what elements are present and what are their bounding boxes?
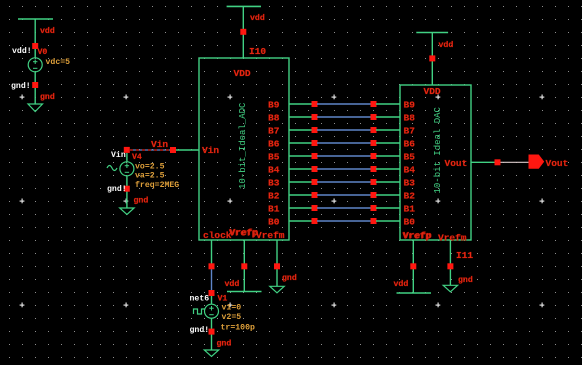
pin square B3 right — [371, 179, 377, 185]
wire B1 net (blue) — [317, 207, 371, 209]
wire clock stub — [211, 240, 213, 264]
wire Vout to port (highlighted) — [501, 161, 530, 163]
pin square Vout wire — [495, 159, 501, 165]
wire Vrefp stub (DAC) — [412, 240, 414, 293]
ground symbol (V1) — [204, 350, 218, 357]
svg-text:gnd!: gnd! — [190, 325, 210, 335]
svg-text:B9: B9 — [404, 100, 416, 111]
svg-text:Vin: Vin — [202, 145, 219, 156]
wire B4 DAC stub — [376, 168, 400, 170]
wire B9 DAC stub — [376, 103, 400, 105]
wire vdd to ADC VDD — [242, 6, 244, 58]
svg-text:net6: net6 — [190, 295, 210, 304]
voltage source V4 — [120, 162, 134, 176]
svg-text:v1=0: v1=0 — [222, 304, 242, 313]
wire B5 DAC stub — [376, 155, 400, 157]
pulse symbol of V1 — [194, 309, 206, 314]
wire B7 net (blue) — [317, 129, 371, 131]
svg-text:B7: B7 — [404, 126, 416, 137]
sine symbol of V4 — [107, 166, 117, 171]
svg-text:B8: B8 — [404, 113, 416, 124]
svg-text:vdd: vdd — [394, 279, 409, 289]
svg-text:vdd: vdd — [250, 13, 265, 23]
wire vdd to DAC VDD — [431, 33, 433, 86]
pin square B6 right — [371, 140, 377, 146]
pin square ADC vdd — [240, 29, 246, 35]
svg-text:B1: B1 — [404, 204, 416, 215]
pin square B2 left — [312, 192, 318, 198]
wire B0 DAC stub — [376, 220, 400, 222]
wire B8 DAC stub — [376, 116, 400, 118]
svg-text:v2=5: v2=5 — [222, 313, 242, 322]
power symbol vdd bar (DAC supply) — [416, 32, 448, 34]
wire Vrefm stub (ADC) — [276, 240, 278, 286]
output port symbol Vout — [529, 155, 544, 168]
pin square V4 minus — [124, 186, 130, 192]
wire Vrefm stub (DAC) — [449, 240, 451, 285]
svg-text:10-bit_Ideal_ADC: 10-bit_Ideal_ADC — [238, 102, 248, 189]
wire V1 minus to gnd — [211, 318, 213, 350]
svg-text:tr=100p: tr=100p — [221, 324, 255, 333]
svg-text:B3: B3 — [404, 178, 416, 189]
ground symbol (ADC Vrefm) — [270, 286, 284, 293]
wire B2 DAC stub — [376, 194, 400, 196]
wire B0 ADC stub — [289, 220, 312, 222]
svg-text:Vrefm: Vrefm — [256, 230, 285, 241]
pin square B6 left — [312, 140, 318, 146]
pin square clock — [209, 263, 215, 269]
wire B3 net (blue) — [317, 181, 371, 183]
wire B7 ADC stub — [289, 129, 312, 131]
wire B5 ADC stub — [289, 155, 312, 157]
svg-text:Vrefm: Vrefm — [438, 233, 467, 244]
svg-text:B6: B6 — [268, 139, 280, 150]
svg-text:VDD: VDD — [234, 68, 251, 79]
pin square V1 minus — [209, 329, 215, 335]
wire B3 ADC stub — [289, 181, 312, 183]
pin square V1 plus — [209, 290, 215, 296]
wire B2 ADC stub — [289, 194, 312, 196]
pin square B1 right — [371, 205, 377, 211]
pin square B5 right — [371, 153, 377, 159]
pin square B8 left — [312, 114, 318, 120]
svg-text:gnd!: gnd! — [107, 184, 127, 194]
svg-text:gnd: gnd — [458, 275, 473, 285]
svg-text:VDD: VDD — [424, 86, 441, 97]
svg-text:vo=2.5: vo=2.5 — [135, 163, 165, 172]
svg-text:B9: B9 — [268, 100, 280, 111]
wire B5 net (blue) — [317, 155, 371, 157]
pin square B0 right — [371, 218, 377, 224]
svg-text:va=2.5: va=2.5 — [135, 172, 165, 181]
power symbol vdd bar (DAC Vrefp) — [397, 292, 432, 294]
power symbol vdd bar (top-left rail) — [18, 18, 53, 20]
wire V4 top — [126, 153, 128, 162]
pin square Vrefm (DAC) — [447, 263, 453, 269]
ground symbol (V4) — [120, 208, 134, 215]
wire B1 DAC stub — [376, 207, 400, 209]
pin square B4 right — [371, 166, 377, 172]
pin square Vrefp (DAC) — [410, 263, 416, 269]
wire vdd to V0 plus — [34, 19, 36, 58]
svg-text:B4: B4 — [268, 165, 280, 176]
junction square on Vin wire — [170, 147, 176, 153]
svg-text:gnd: gnd — [217, 339, 232, 349]
pin square B9 right — [371, 101, 377, 107]
pin square Vrefp (ADC) — [241, 263, 247, 269]
svg-text:vdd: vdd — [225, 279, 240, 289]
pin square B0 left — [312, 218, 318, 224]
voltage source V1 — [205, 304, 219, 318]
svg-text:B2: B2 — [404, 191, 416, 202]
svg-text:B7: B7 — [268, 126, 280, 137]
pin square B7 left — [312, 127, 318, 133]
wire B6 ADC stub — [289, 142, 312, 144]
svg-text:vdd!: vdd! — [12, 46, 32, 56]
svg-text:V4: V4 — [132, 153, 142, 162]
svg-text:Vrefp: Vrefp — [403, 230, 432, 241]
svg-text:clock: clock — [203, 230, 232, 241]
ground symbol (V0) — [28, 104, 43, 112]
wire B4 ADC stub — [289, 168, 312, 170]
pin square V4 plus — [124, 147, 130, 153]
svg-text:B4: B4 — [404, 165, 416, 176]
svg-text:vdd: vdd — [40, 26, 55, 36]
svg-text:B0: B0 — [268, 217, 280, 228]
svg-text:B6: B6 — [404, 139, 416, 150]
svg-text:gnd: gnd — [282, 273, 297, 283]
pin square B9 left — [312, 101, 318, 107]
svg-text:vdc=5: vdc=5 — [46, 57, 71, 67]
svg-text:B3: B3 — [268, 178, 280, 189]
voltage source V0 — [28, 58, 42, 72]
wire B4 net (blue) — [317, 168, 371, 170]
svg-text:V0: V0 — [38, 48, 48, 57]
svg-text:V1: V1 — [218, 295, 228, 304]
op-amp block U I11 : 10-bit Ideal DAC body — [400, 85, 471, 240]
pin square Vrefm (ADC) — [274, 263, 280, 269]
svg-text:Vout: Vout — [546, 158, 569, 169]
wire B0 net (blue) — [317, 220, 371, 222]
pin square B5 left — [312, 153, 318, 159]
wire B7 DAC stub — [376, 129, 400, 131]
op-amp block U I10 : 10-bit Ideal ADC body — [199, 58, 289, 240]
svg-text:gnd!: gnd! — [11, 81, 31, 91]
wire B1 ADC stub — [289, 207, 312, 209]
wire V4 minus to gnd — [126, 176, 128, 208]
svg-text:Vrefp: Vrefp — [230, 227, 259, 238]
svg-text:Vout: Vout — [445, 158, 468, 169]
svg-text:vdd: vdd — [439, 40, 454, 50]
svg-text:B5: B5 — [268, 152, 280, 163]
svg-text:gnd: gnd — [40, 92, 55, 102]
pin square B7 right — [371, 127, 377, 133]
svg-text:B0: B0 — [404, 217, 416, 228]
svg-text:B2: B2 — [268, 191, 280, 202]
pin square B2 right — [371, 192, 377, 198]
wire B9 net (blue) — [317, 103, 371, 105]
wire Vout from DAC — [471, 161, 495, 163]
wire B3 DAC stub — [376, 181, 400, 183]
pin square V0 minus — [32, 82, 38, 88]
wire to V1 — [211, 296, 213, 304]
pin square B3 left — [312, 179, 318, 185]
svg-text:I11: I11 — [456, 250, 473, 261]
power symbol vdd bar (ADC Vrefp) — [227, 291, 262, 293]
wire net6 (blue) — [211, 269, 213, 290]
pin square B1 left — [312, 205, 318, 211]
svg-text:10-bit Ideal DAC: 10-bit Ideal DAC — [433, 106, 443, 193]
wire V0 minus to gnd — [34, 72, 36, 104]
pin square DAC vdd — [429, 55, 435, 61]
svg-text:Vin: Vin — [151, 139, 168, 150]
svg-text:gnd: gnd — [134, 196, 149, 206]
pin square V0 plus — [32, 43, 38, 49]
svg-text:B1: B1 — [268, 204, 280, 215]
wire Vrefp stub (ADC) — [243, 240, 245, 292]
svg-text:I10: I10 — [249, 46, 266, 57]
wire B8 net (blue) — [317, 116, 371, 118]
pin square B8 right — [371, 114, 377, 120]
svg-text:B5: B5 — [404, 152, 416, 163]
power symbol vdd bar (ADC supply) — [227, 5, 261, 7]
wire B6 net (blue) — [317, 142, 371, 144]
wire B9 ADC stub — [289, 103, 312, 105]
svg-text:B8: B8 — [268, 113, 280, 124]
wire B6 DAC stub — [376, 142, 400, 144]
wire B8 ADC stub — [289, 116, 312, 118]
ground symbol (DAC Vrefm) — [443, 285, 457, 292]
pin square B4 left — [312, 166, 318, 172]
wire Vin to ADC — [176, 149, 199, 151]
wire Vin (selected, dashed) — [130, 149, 173, 151]
wire B2 net (blue) — [317, 194, 371, 196]
svg-text:Vin: Vin — [111, 150, 126, 160]
svg-text:freq=2MEG: freq=2MEG — [135, 180, 179, 190]
